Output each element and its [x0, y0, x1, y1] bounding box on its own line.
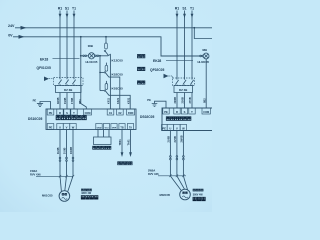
- wire TB fault output: [121, 130, 123, 153]
- connector pin pair left of HL1: [83, 55, 85, 57]
- motor M2 circle: [180, 189, 191, 200]
- wire incoming phase T1 (left): [73, 11, 75, 78]
- svg-text:2S0B: 2S0B: [181, 97, 185, 104]
- wire incoming phase S1 (right): [184, 11, 186, 79]
- VFD2 top terminal R: [174, 108, 180, 114]
- svg-text:K03C05: K03C05: [112, 87, 124, 91]
- svg-text:EK18: EK18: [40, 57, 48, 61]
- breaker QF2 pole 2: [183, 78, 186, 86]
- svg-text:X2: X2: [118, 111, 122, 115]
- breaker QF1 dashed enclosure: [54, 78, 84, 86]
- VFD2 top terminal COM: [202, 108, 210, 114]
- arrowhead T1 left: [73, 14, 76, 18]
- contact K2 blade: [105, 73, 108, 77]
- svg-text:W: W: [182, 126, 185, 130]
- VFD2 bottom terminal U: [167, 125, 173, 131]
- sensor wire VCI: [103, 130, 105, 138]
- svg-text:RVV 4X6: RVV 4X6: [30, 173, 41, 177]
- VFD1 bottom terminal U: [57, 124, 63, 130]
- svg-text:QF02C05: QF02C05: [150, 68, 164, 72]
- VFD2 top terminal S: [181, 108, 187, 114]
- svg-text:COM: COM: [203, 111, 209, 114]
- svg-text:K12C05: K12C05: [112, 59, 124, 63]
- svg-text:0B1: 0B1: [78, 99, 82, 104]
- svg-text:08B: 08B: [88, 44, 93, 48]
- label 降速 (speed down): [137, 81, 140, 84]
- svg-text:PE: PE: [33, 99, 37, 103]
- svg-text:PE: PE: [49, 111, 53, 115]
- VFD1 bottom terminal GND: [96, 124, 102, 130]
- wire U motor2: [170, 131, 181, 192]
- breaker QF1 pole 3: [72, 78, 75, 86]
- arrowhead TA: [129, 152, 132, 157]
- label 同步传感器 (sync sensor): [93, 146, 96, 149]
- svg-text:0V: 0V: [8, 33, 13, 37]
- node K1 branch on rail: [105, 36, 107, 38]
- VFD1 bottom terminal PE: [47, 124, 54, 130]
- wire TA fault output: [130, 130, 132, 153]
- label 主电机 motor2 (bold): [193, 197, 196, 200]
- svg-text:TB: TB: [120, 126, 123, 129]
- motor M1 circle: [59, 191, 70, 202]
- VFD1 bottom terminal W: [70, 124, 76, 130]
- wire S to VFD2 terminal: [184, 93, 186, 109]
- wire 0V rail with bend down at x=161 over to lamp HL2: [13, 37, 200, 56]
- contact K3 blade: [105, 91, 108, 95]
- wire incoming phase R1 (right): [176, 11, 178, 79]
- wire stub chain to FU3: [105, 81, 107, 84]
- wire COM drop from lamp HL2 to VFD2 COM: [205, 59, 207, 108]
- svg-text:EK28: EK28: [153, 59, 161, 63]
- arrowhead 0V rail: [19, 35, 25, 39]
- wire bus rung to K3 pivot: [100, 90, 105, 92]
- wire 24V supply rail (top): [15, 27, 212, 29]
- wire V motor2: [177, 131, 185, 190]
- svg-text:0B2: 0B2: [202, 98, 206, 103]
- svg-text:T1: T1: [72, 7, 76, 11]
- wire T to VFD1 terminal: [73, 93, 75, 110]
- svg-text:TA01: TA01: [127, 139, 131, 146]
- VFD2 top terminal PE: [163, 108, 169, 114]
- svg-text:K021: K021: [116, 97, 120, 104]
- VFD1 bottom terminal VRF: [111, 124, 117, 130]
- svg-text:2R0B: 2R0B: [173, 97, 177, 104]
- svg-text:PE: PE: [147, 98, 151, 102]
- svg-text:X1: X1: [109, 111, 113, 115]
- motor M1 wave symbol: [62, 197, 67, 199]
- wire U motor1: [60, 130, 61, 192]
- wire incoming phase S1 (left): [66, 11, 68, 78]
- arrowhead R1 right: [176, 14, 179, 18]
- wire R to VFD1 terminal: [59, 93, 61, 110]
- svg-text:U: U: [59, 125, 61, 129]
- svg-text:380V 4W: 380V 4W: [81, 192, 92, 195]
- cable marker line (left motor cable): [36, 175, 73, 177]
- svg-text:2U0B: 2U0B: [167, 136, 171, 143]
- wire branch of 24V rail to right edge: [194, 28, 212, 39]
- node bus top: [99, 55, 101, 57]
- svg-text:08B: 08B: [202, 48, 207, 52]
- svg-text:2W0A: 2W0A: [148, 168, 155, 172]
- connector pins wire W2: [183, 156, 185, 158]
- node lamp tee on COM wire: [80, 55, 82, 57]
- breaker QF2 actuator flag: [164, 74, 169, 79]
- CJK glyph blocks: [56, 55, 205, 201]
- contact K1 blade: [105, 51, 108, 55]
- breaker QF1 pole 2: [65, 78, 68, 86]
- svg-text:R: R: [59, 111, 61, 115]
- contact K2 pivot: [104, 72, 105, 73]
- svg-text:TB01: TB01: [118, 139, 122, 146]
- svg-text:M01C05: M01C05: [42, 193, 53, 197]
- svg-text:24V: 24V: [8, 24, 15, 28]
- label 摆频电机 motor1 line1: [81, 189, 83, 191]
- wire bus rung to K2 pivot: [100, 71, 105, 73]
- svg-text:1S0B: 1S0B: [63, 97, 67, 104]
- svg-text:QF01C05: QF01C05: [37, 66, 51, 70]
- svg-text:V: V: [66, 125, 68, 129]
- wire V motor1: [65, 130, 67, 191]
- label 同步电机 motor2 line1: [193, 189, 195, 191]
- svg-text:PE: PE: [164, 110, 168, 114]
- lamp HL1: [88, 53, 94, 59]
- wire lamp HL1 feed: [81, 55, 108, 57]
- breaker QF1 linkage (dashed): [49, 78, 54, 80]
- motor M1 inner mark: [62, 193, 64, 195]
- node bus rung K2: [99, 72, 101, 74]
- svg-text:K031: K031: [126, 97, 130, 104]
- connector pins wire U: [59, 157, 61, 159]
- wire R to VFD2 terminal: [176, 93, 178, 109]
- connector pin pair right of HL1: [95, 55, 97, 57]
- arrowhead S1 right: [183, 14, 186, 18]
- ground PE symbol (left VFD): [37, 102, 51, 110]
- svg-text:HL02C05: HL02C05: [197, 60, 209, 64]
- label 正转 (forward): [137, 55, 140, 58]
- VFD1 top terminal FWD: [127, 109, 135, 115]
- breaker QF1 pole 1: [58, 78, 61, 86]
- svg-text:GND: GND: [97, 127, 102, 129]
- VFD1 top terminal X2: [117, 109, 124, 115]
- breaker QF2 pole 3: [190, 78, 193, 86]
- svg-text:380V 4W: 380V 4W: [193, 193, 204, 196]
- VFD1 top terminal S: [64, 109, 70, 115]
- breaker QF2 pole 1: [175, 78, 178, 86]
- wire control bus down from lamp node: [99, 56, 101, 91]
- label 送布电机 motor1 (bold): [81, 196, 84, 199]
- VFD2 bottom terminal W: [180, 125, 186, 131]
- arrowhead T1 right: [191, 14, 194, 18]
- cable marker line (right motor cable): [158, 175, 186, 177]
- svg-text:1W0B: 1W0B: [69, 147, 73, 154]
- VFD2 bottom terminal PE: [162, 125, 168, 131]
- wire stub chain to FU2: [105, 63, 107, 66]
- svg-text:HL01C05: HL01C05: [86, 60, 98, 64]
- VFD1 top terminal X1: [107, 109, 114, 115]
- svg-text:R1: R1: [175, 7, 179, 11]
- filter box DZ3B (right): [174, 86, 193, 93]
- svg-text:FWD: FWD: [128, 112, 134, 115]
- wire K2 to terminal X2: [109, 77, 120, 109]
- svg-text:M02C05: M02C05: [160, 193, 171, 197]
- VFD1 bottom terminal V: [63, 124, 69, 130]
- wire incoming phase T1 (right): [191, 11, 193, 79]
- wire K1 to terminal X1: [108, 54, 110, 109]
- VFD1 top terminal R: [57, 109, 63, 115]
- motor M2 inner mark: [183, 192, 185, 194]
- connector pins wire V: [66, 157, 68, 159]
- svg-text:DS02C05: DS02C05: [140, 115, 154, 119]
- svg-text:RVV 4X6: RVV 4X6: [148, 172, 159, 176]
- VFD1 top terminal COM: [84, 109, 92, 115]
- VFD1 box outline: [46, 109, 136, 130]
- svg-text:2V0B: 2V0B: [173, 136, 177, 143]
- svg-text:COM: COM: [85, 112, 91, 115]
- wire K1 branch from 0V rail: [105, 37, 107, 43]
- svg-text:DZ 3B: DZ 3B: [64, 88, 72, 92]
- svg-text:S: S: [184, 110, 186, 114]
- sensor wire GND: [97, 130, 99, 138]
- connector pins wire W: [72, 157, 74, 159]
- connector pin pair left of HL2: [200, 55, 202, 57]
- cable callout line EK28 (right): [166, 60, 193, 62]
- svg-text:2W0B: 2W0B: [180, 135, 184, 142]
- svg-text:2T0B: 2T0B: [188, 97, 192, 103]
- svg-text:1R0B: 1R0B: [56, 97, 60, 104]
- label 艾默生变频器 VFD1: [56, 116, 60, 120]
- VFD2 box outline (cut by right edge): [162, 108, 214, 131]
- breaker QF2 linkage (dashed): [169, 76, 173, 78]
- connector FU1: [105, 43, 108, 49]
- wire W motor2: [183, 131, 188, 192]
- cable slash marks right: [169, 174, 184, 177]
- svg-text:K02C05: K02C05: [112, 73, 124, 77]
- svg-text:R: R: [176, 110, 178, 114]
- svg-text:V: V: [176, 126, 178, 130]
- svg-text:1V0B: 1V0B: [63, 147, 67, 154]
- label 升速 (speed up): [137, 67, 140, 70]
- VFD1 bottom terminal VCI: [103, 124, 109, 130]
- wire COM drop from 0V rail to VFD1 COM: [81, 37, 87, 109]
- svg-text:PE: PE: [162, 126, 166, 130]
- svg-text:S1: S1: [65, 7, 69, 11]
- contact K1 pivot: [104, 50, 105, 51]
- ground PE symbol (right VFD): [152, 101, 166, 108]
- svg-text:S: S: [66, 111, 68, 115]
- svg-text:1U0B: 1U0B: [56, 147, 60, 154]
- svg-text:1W0A: 1W0A: [30, 169, 37, 173]
- svg-text:W: W: [72, 125, 75, 129]
- VFD1 top terminal PE: [47, 109, 54, 115]
- arrowhead S1 left: [66, 14, 69, 18]
- VFD1 bottom terminal TA: [127, 124, 133, 130]
- svg-text:DZ 3B: DZ 3B: [179, 88, 187, 92]
- connector pins wire V2: [176, 156, 178, 158]
- connector pins wire U2: [170, 156, 172, 158]
- VFD2 bottom terminal V: [174, 125, 180, 131]
- connector FU2: [105, 65, 108, 71]
- wire W motor1: [68, 130, 73, 192]
- svg-text:DS10C05: DS10C05: [28, 117, 42, 121]
- VFD1 bottom terminal TB: [119, 124, 125, 130]
- wire S to VFD1 terminal: [66, 93, 68, 110]
- arrowhead R1 left: [59, 14, 62, 18]
- svg-text:R1: R1: [58, 7, 62, 11]
- contact K3 pivot: [104, 90, 105, 91]
- node 0V rail / COM wire: [80, 36, 82, 38]
- cable callout line EK18 (left): [53, 58, 80, 60]
- node junction rail1-branch: [193, 27, 195, 29]
- svg-text:T1: T1: [190, 7, 194, 11]
- svg-text:K011: K011: [107, 97, 111, 104]
- svg-text:S1: S1: [182, 7, 186, 11]
- arrowhead 24V rail: [21, 26, 27, 30]
- sensor box (sync sensor): [94, 137, 112, 145]
- wire K3 to terminal FWD: [109, 95, 131, 109]
- sensor wire VRF: [108, 130, 110, 138]
- svg-text:PE: PE: [49, 125, 53, 129]
- connector FU3: [105, 84, 108, 90]
- svg-text:U: U: [169, 126, 171, 130]
- vertical wire number labels: [56, 97, 206, 154]
- VFD1 top terminal T: [71, 109, 77, 115]
- breaker QF1 actuator flag: [44, 77, 49, 82]
- svg-text:1T0B: 1T0B: [70, 98, 74, 104]
- label 故障输出 (fault output): [118, 162, 121, 165]
- filter box DZ3B (left): [56, 86, 82, 93]
- svg-text:TA: TA: [129, 126, 132, 129]
- breaker QF2 dashed enclosure: [173, 78, 195, 86]
- cable slash marks left: [59, 175, 74, 178]
- svg-text:VCI: VCI: [105, 127, 109, 129]
- lamp HL2: [203, 53, 209, 59]
- label 艾默生变频器 VFD2: [166, 117, 170, 121]
- VFD2 top terminal T: [189, 108, 195, 114]
- wire incoming phase R1 (left): [59, 11, 61, 78]
- motor M2 wave symbol: [182, 196, 187, 198]
- wire T to VFD2 terminal: [191, 93, 193, 109]
- svg-text:VRF: VRF: [112, 127, 117, 129]
- arrowhead TB: [121, 152, 124, 157]
